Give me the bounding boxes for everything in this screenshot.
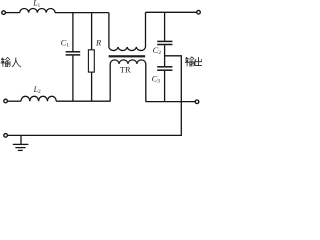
transformer TR secondary winding xyxy=(110,60,146,102)
resistor R xyxy=(88,13,94,102)
transformer TR primary winding xyxy=(109,12,146,50)
terminal T2 (top-right output) xyxy=(197,10,201,14)
inductor L1 xyxy=(20,9,55,13)
svg-text:TR: TR xyxy=(120,65,131,75)
wire xyxy=(56,100,110,102)
terminal T4 (bottom-right output) xyxy=(195,100,199,104)
ground xyxy=(13,135,29,150)
terminal T3 (bottom-left input) xyxy=(4,99,8,103)
terminal T1 (top-left input) xyxy=(2,11,6,15)
transformer core xyxy=(109,55,146,57)
wire xyxy=(55,12,109,14)
label 输出 (output) xyxy=(185,57,202,66)
label 输入 (input) xyxy=(1,57,21,67)
wire (top-right rail) xyxy=(146,11,197,13)
inductor L2 xyxy=(21,96,56,101)
svg-text:R: R xyxy=(95,37,102,47)
wire (C2-C3 midpoint to ground) xyxy=(8,56,181,136)
capacitor C3 xyxy=(157,67,172,102)
capacitor C1 xyxy=(66,13,81,102)
wire xyxy=(8,100,21,102)
wire (bottom-right rail) xyxy=(146,101,195,103)
capacitor C2 xyxy=(157,12,172,66)
terminal T5 (ground) xyxy=(4,134,8,138)
wire xyxy=(6,12,20,14)
